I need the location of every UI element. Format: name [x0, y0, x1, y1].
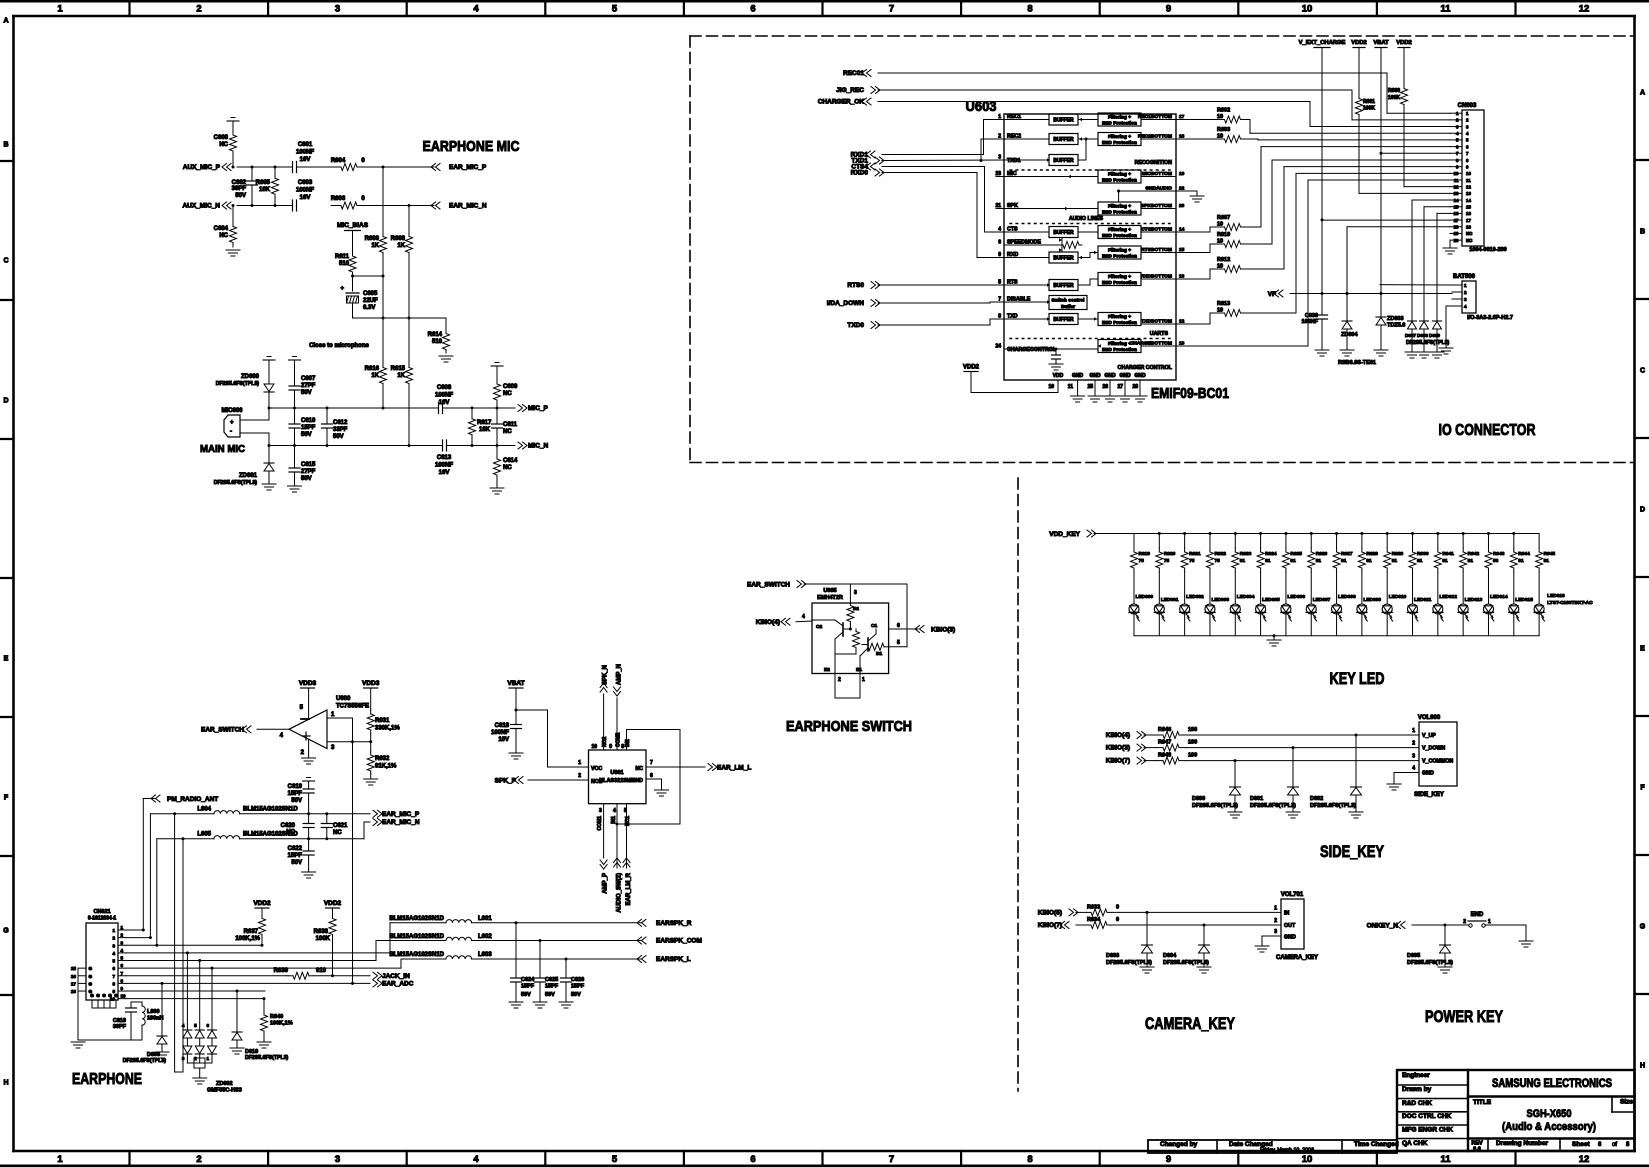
svg-text:9: 9 — [1166, 1154, 1171, 1165]
svg-text:LTST-C193TBKT-AC: LTST-C193TBKT-AC — [1547, 600, 1593, 606]
svg-text:of: of — [1612, 1142, 1617, 1148]
svg-text:20: 20 — [1179, 203, 1185, 209]
svg-text:MFG ENGR CHK: MFG ENGR CHK — [1402, 1127, 1453, 1134]
svg-text:V_COMMON: V_COMMON — [1422, 759, 1453, 765]
svg-text:ZD604: ZD604 — [1341, 332, 1358, 338]
svg-text:ESD Protection: ESD Protection — [1102, 233, 1137, 239]
svg-text:BUFFER: BUFFER — [1053, 256, 1074, 262]
svg-text:LED610: LED610 — [1389, 594, 1407, 600]
svg-text:0-1612634-1: 0-1612634-1 — [88, 916, 117, 922]
svg-text:3: 3 — [1464, 297, 1467, 302]
svg-text:C601: C601 — [298, 142, 313, 148]
svg-text:REC01: REC01 — [843, 70, 864, 77]
svg-text:100nH: 100nH — [147, 1016, 164, 1022]
svg-text:6: 6 — [206, 1023, 209, 1028]
svg-text:R605: R605 — [256, 180, 271, 186]
svg-text:LED615: LED615 — [1515, 597, 1533, 603]
svg-text:1: 1 — [331, 712, 335, 718]
svg-text:NC: NC — [503, 465, 512, 471]
svg-text:R616: R616 — [365, 366, 380, 372]
svg-text:R621: R621 — [1189, 551, 1201, 557]
svg-text:2: 2 — [1274, 918, 1277, 924]
svg-text:0: 0 — [1116, 904, 1119, 910]
svg-text:6: 6 — [1466, 144, 1469, 149]
svg-text:G: G — [89, 981, 93, 986]
svg-text:12: 12 — [1579, 4, 1590, 15]
svg-text:16V: 16V — [439, 400, 450, 406]
svg-text:EAR_MIC_N: EAR_MIC_N — [449, 203, 487, 210]
svg-text:15: 15 — [1466, 205, 1471, 210]
svg-text:EAR_SWITCH: EAR_SWITCH — [747, 582, 790, 589]
svg-text:DF2S5.6FS(TPL3): DF2S5.6FS(TPL3) — [214, 480, 258, 486]
svg-text:NO2: NO2 — [602, 737, 608, 748]
svg-text:4: 4 — [280, 733, 284, 739]
svg-text:C618: C618 — [495, 723, 510, 729]
svg-text:39PF: 39PF — [113, 1024, 127, 1030]
svg-text:U603: U603 — [966, 98, 997, 114]
svg-text:ESD Protection: ESD Protection — [1102, 320, 1137, 326]
svg-text:8: 8 — [1027, 4, 1032, 15]
svg-text:VDD_KEY: VDD_KEY — [1049, 531, 1080, 538]
svg-text:10: 10 — [1302, 1154, 1313, 1165]
svg-text:R608: R608 — [391, 236, 406, 242]
svg-text:5: 5 — [612, 4, 618, 15]
svg-text:A: A — [3, 18, 8, 25]
svg-text:1: 1 — [1488, 919, 1491, 925]
svg-text:KEY LED: KEY LED — [1330, 670, 1385, 688]
svg-text:12: 12 — [1579, 1154, 1590, 1165]
svg-text:E: E — [1640, 646, 1645, 653]
svg-text:4: 4 — [473, 1154, 479, 1165]
svg-text:TDZ5.6: TDZ5.6 — [1387, 323, 1405, 329]
svg-text:Drawing Number: Drawing Number — [1496, 1140, 1548, 1147]
svg-text:R625: R625 — [1290, 551, 1302, 557]
svg-text:GND: GND — [1104, 373, 1116, 379]
svg-text:VBAT: VBAT — [1373, 40, 1389, 46]
svg-text:ZD603: ZD603 — [1387, 316, 1404, 322]
svg-text:U601: U601 — [610, 770, 623, 776]
svg-text:1: 1 — [1274, 905, 1277, 911]
svg-text:A: A — [1640, 90, 1645, 97]
svg-text:KBIO(3): KBIO(3) — [1106, 745, 1130, 752]
svg-text:G: G — [114, 993, 118, 998]
svg-text:4: 4 — [1412, 766, 1415, 772]
svg-text:POWER KEY: POWER KEY — [1425, 1008, 1503, 1026]
svg-text:100K: 100K — [1388, 95, 1400, 101]
svg-text:5: 5 — [1466, 138, 1469, 143]
svg-text:10K: 10K — [479, 427, 491, 433]
svg-text:17: 17 — [71, 981, 77, 986]
svg-text:D609: D609 — [1429, 333, 1440, 338]
svg-text:100K: 100K — [1363, 106, 1375, 112]
svg-text:Changed by: Changed by — [1160, 1141, 1198, 1148]
svg-text:100NF: 100NF — [296, 188, 314, 194]
svg-text:7: 7 — [112, 974, 115, 979]
svg-text:33PF: 33PF — [333, 427, 348, 433]
svg-text:50V: 50V — [291, 798, 302, 804]
svg-text:R642: R642 — [1468, 551, 1480, 557]
svg-text:C607: C607 — [301, 376, 316, 382]
svg-text:9: 9 — [1166, 4, 1171, 15]
svg-text:AUX_MIC_P: AUX_MIC_P — [183, 164, 221, 171]
svg-text:CN603: CN603 — [1458, 103, 1477, 109]
svg-text:JACK_IN: JACK_IN — [382, 973, 410, 980]
svg-text:910: 910 — [316, 968, 327, 974]
svg-text:50V: 50V — [301, 390, 312, 396]
svg-text:IN: IN — [1284, 910, 1289, 916]
svg-text:1: 1 — [1464, 283, 1467, 288]
svg-text:I/DA_DOWN: I/DA_DOWN — [827, 300, 865, 307]
svg-text:BAT500: BAT500 — [1453, 274, 1476, 280]
svg-text:BLM15AG102SN1D: BLM15AG102SN1D — [389, 952, 444, 958]
svg-text:R631: R631 — [375, 718, 390, 724]
svg-text:R620: R620 — [1164, 551, 1176, 557]
svg-text:10V: 10V — [498, 737, 509, 743]
svg-text:91: 91 — [1544, 558, 1550, 564]
svg-text:Filtering +: Filtering + — [1108, 115, 1131, 121]
svg-text:50V: 50V — [291, 860, 302, 866]
svg-text:27PF: 27PF — [301, 383, 316, 389]
svg-text:G: G — [1640, 924, 1646, 931]
svg-text:50V: 50V — [301, 476, 312, 482]
svg-text:3: 3 — [1412, 754, 1415, 760]
svg-text:LED608: LED608 — [1338, 594, 1356, 600]
svg-text:NC: NC — [333, 830, 342, 836]
svg-text:BUFFER: BUFFER — [1053, 118, 1074, 124]
svg-text:D605: D605 — [1407, 953, 1420, 959]
svg-text:1: 1 — [206, 1056, 209, 1061]
svg-text:V_DOWN: V_DOWN — [1422, 746, 1445, 752]
svg-text:COM1: COM1 — [597, 816, 603, 831]
svg-text:CAMERA_KEY: CAMERA_KEY — [1145, 1015, 1235, 1033]
svg-text:2: 2 — [1463, 919, 1466, 925]
svg-text:R604: R604 — [331, 158, 346, 164]
svg-text:JIG_REC: JIG_REC — [836, 87, 864, 94]
svg-text:8: 8 — [112, 981, 115, 986]
svg-text:6.3V: 6.3V — [363, 305, 375, 311]
svg-text:22UF: 22UF — [363, 298, 378, 304]
svg-text:G: G — [3, 928, 9, 935]
svg-text:3: 3 — [335, 1154, 340, 1165]
svg-text:SGH-X650: SGH-X650 — [1527, 1108, 1572, 1120]
svg-text:MIC_N: MIC_N — [528, 443, 549, 450]
svg-text:15PF: 15PF — [545, 984, 559, 990]
svg-text:10: 10 — [591, 744, 597, 750]
svg-text:GND: GND — [1089, 373, 1101, 379]
svg-text:15: 15 — [1454, 205, 1459, 210]
svg-text:BUFFER: BUFFER — [1053, 283, 1074, 289]
svg-text:C619: C619 — [288, 784, 303, 790]
svg-text:5: 5 — [121, 956, 124, 961]
svg-text:GND: GND — [1284, 935, 1296, 941]
svg-text:50V: 50V — [301, 432, 312, 438]
svg-text:1K: 1K — [397, 373, 405, 379]
svg-text:1: 1 — [112, 928, 115, 933]
svg-text:G: G — [89, 974, 93, 979]
svg-text:2: 2 — [1412, 741, 1415, 747]
svg-text:1: 1 — [1412, 728, 1415, 734]
svg-text:R627: R627 — [1341, 551, 1353, 557]
svg-text:AMP_P: AMP_P — [603, 873, 609, 894]
svg-text:VDD2: VDD2 — [1351, 40, 1366, 46]
svg-text:SPK_N: SPK_N — [603, 665, 609, 685]
svg-text:NC: NC — [219, 233, 228, 239]
svg-text:8: 8 — [1466, 158, 1469, 163]
svg-text:LED614: LED614 — [1490, 594, 1508, 600]
svg-text:Filtering +: Filtering + — [1108, 274, 1131, 280]
svg-text:50V: 50V — [235, 193, 246, 199]
svg-text:11: 11 — [1440, 4, 1451, 15]
svg-text:3: 3 — [1274, 929, 1277, 935]
svg-text:R606: R606 — [331, 196, 346, 202]
svg-text:28: 28 — [1132, 384, 1138, 390]
svg-text:100NF: 100NF — [1301, 319, 1318, 325]
svg-text:LED612: LED612 — [1439, 594, 1457, 600]
svg-text:C2: C2 — [816, 624, 822, 630]
svg-text:1: 1 — [121, 925, 124, 930]
svg-text:VDD2: VDD2 — [253, 900, 271, 907]
svg-text:BLM15AG102SN1D: BLM15AG102SN1D — [243, 807, 298, 813]
svg-text:B: B — [1640, 229, 1645, 236]
svg-text:510: 510 — [339, 261, 350, 267]
svg-text:27PF: 27PF — [301, 469, 316, 475]
svg-text:D601: D601 — [1250, 796, 1263, 802]
svg-text:B: B — [3, 142, 8, 149]
svg-text:DF2S5.6FS(TPL3): DF2S5.6FS(TPL3) — [1163, 960, 1209, 966]
svg-text:GND: GND — [631, 778, 643, 784]
svg-text:EAR_MIC_N: EAR_MIC_N — [382, 819, 420, 826]
svg-text:D600: D600 — [1192, 796, 1205, 802]
svg-text:56: 56 — [1493, 558, 1499, 564]
svg-text:ZD601: ZD601 — [239, 473, 258, 479]
svg-text:91: 91 — [1442, 558, 1448, 564]
svg-text:C600: C600 — [214, 135, 229, 141]
svg-text:20: 20 — [1454, 238, 1459, 243]
svg-text:19: 19 — [1454, 231, 1459, 236]
svg-text:7: 7 — [121, 971, 124, 976]
svg-text:U600: U600 — [336, 696, 351, 702]
svg-text:Switch control: Switch control — [1051, 298, 1084, 304]
svg-text:100K,1%: 100K,1% — [270, 1021, 293, 1027]
svg-text:C: C — [3, 258, 8, 265]
svg-text:18: 18 — [1454, 225, 1459, 230]
svg-text:BUFFER: BUFFER — [1053, 230, 1074, 236]
svg-text:25: 25 — [1087, 384, 1093, 390]
svg-text:NC: NC — [286, 830, 295, 836]
svg-text:DF2S5.6FS(TPL3): DF2S5.6FS(TPL3) — [1406, 340, 1450, 346]
svg-text:1: 1 — [57, 4, 63, 15]
svg-text:Time Changed: Time Changed — [1354, 1141, 1399, 1148]
svg-text:R633: R633 — [1087, 904, 1100, 910]
svg-text:16V: 16V — [300, 195, 311, 201]
svg-text:11: 11 — [1466, 178, 1471, 183]
svg-text:LED603: LED603 — [1211, 597, 1229, 603]
svg-text:GND: GND — [1422, 771, 1434, 777]
svg-text:2: 2 — [196, 4, 201, 15]
svg-text:KBIO(3): KBIO(3) — [931, 627, 955, 634]
svg-text:4: 4 — [473, 4, 479, 15]
svg-text:14: 14 — [1454, 198, 1459, 203]
svg-text:13: 13 — [1454, 191, 1459, 196]
svg-text:100: 100 — [1188, 727, 1197, 733]
svg-text:2: 2 — [112, 936, 115, 941]
svg-text:R614: R614 — [428, 332, 443, 338]
svg-text:9: 9 — [609, 744, 612, 750]
svg-text:C613: C613 — [437, 455, 452, 461]
svg-text:Drawn by: Drawn by — [1402, 1086, 1432, 1093]
svg-text:C624: C624 — [521, 977, 535, 983]
svg-text:MIC_BIAS: MIC_BIAS — [337, 222, 369, 229]
svg-text:100: 100 — [1188, 753, 1197, 759]
svg-text:NC: NC — [503, 429, 512, 435]
svg-text:Friday, March 10, 2006: Friday, March 10, 2006 — [1260, 1148, 1314, 1154]
svg-text:C605: C605 — [363, 291, 378, 297]
svg-text:50V: 50V — [545, 992, 555, 998]
svg-text:3: 3 — [1466, 124, 1469, 129]
svg-text:R619: R619 — [1139, 551, 1151, 557]
svg-text:14: 14 — [1466, 198, 1471, 203]
svg-text:VDD2: VDD2 — [963, 365, 980, 371]
svg-text:KBIO(4): KBIO(4) — [756, 619, 780, 626]
svg-text:END: END — [1471, 912, 1484, 918]
svg-text:12: 12 — [1454, 184, 1459, 189]
svg-text:Filtering +: Filtering + — [1108, 204, 1131, 210]
svg-text:15PF: 15PF — [288, 853, 303, 859]
svg-text:TC7S556FE: TC7S556FE — [336, 704, 369, 710]
svg-text:L601: L601 — [478, 916, 492, 922]
svg-text:B2: B2 — [853, 606, 859, 611]
svg-text:LED601: LED601 — [1161, 597, 1179, 603]
svg-text:Sheet: Sheet — [1572, 1141, 1591, 1148]
svg-text:C609: C609 — [503, 384, 518, 390]
svg-text:DF2S5.6FS(TPL3): DF2S5.6FS(TPL3) — [1310, 803, 1356, 809]
svg-text:D: D — [1640, 507, 1645, 514]
svg-text:NO1: NO1 — [591, 779, 602, 785]
svg-text:ZD602: ZD602 — [216, 1081, 233, 1087]
svg-text:NC: NC — [1466, 231, 1473, 236]
svg-text:R609: R609 — [365, 236, 380, 242]
svg-text:8: 8 — [1626, 1142, 1630, 1148]
svg-text:R634: R634 — [1087, 917, 1101, 923]
svg-text:MIC606: MIC606 — [221, 408, 243, 414]
svg-text:5: 5 — [112, 959, 115, 964]
svg-text:-: - — [230, 429, 232, 435]
svg-text:1004-0019-289: 1004-0019-289 — [1469, 247, 1506, 253]
svg-text:F: F — [1640, 785, 1645, 792]
svg-text:6: 6 — [112, 966, 115, 971]
svg-text:9: 9 — [121, 986, 124, 991]
svg-text:D603: D603 — [1106, 953, 1119, 959]
svg-text:5: 5 — [300, 705, 304, 711]
svg-text:C: C — [1640, 368, 1645, 375]
svg-text:LED607: LED607 — [1313, 597, 1331, 603]
svg-text:RECOGNITION: RECOGNITION — [1135, 160, 1173, 166]
svg-text:R645: R645 — [1544, 551, 1556, 557]
svg-text:Filtering +: Filtering + — [1108, 341, 1131, 347]
svg-text:2: 2 — [578, 773, 581, 779]
svg-text:6: 6 — [650, 773, 653, 779]
svg-text:VBAT: VBAT — [507, 680, 524, 687]
svg-text:18: 18 — [71, 989, 77, 994]
svg-text:G: G — [102, 993, 106, 998]
svg-text:5: 5 — [897, 640, 900, 646]
svg-text:GMF05C-HS3: GMF05C-HS3 — [207, 1088, 242, 1094]
svg-text:R601: R601 — [1363, 99, 1375, 105]
svg-text:C611: C611 — [503, 422, 518, 428]
svg-text:V_UP: V_UP — [1422, 733, 1436, 739]
svg-text:R612: R612 — [1217, 257, 1230, 263]
svg-text:D: D — [3, 398, 8, 405]
svg-text:CHARGER_OK: CHARGER_OK — [818, 99, 865, 106]
svg-text:15PF: 15PF — [301, 425, 316, 431]
svg-text:1K: 1K — [397, 243, 405, 249]
svg-text:DF2S5.6FS(TPL3): DF2S5.6FS(TPL3) — [216, 381, 260, 387]
svg-text:16V: 16V — [300, 157, 311, 163]
svg-text:VCC: VCC — [591, 766, 602, 772]
svg-text:DF2S5.6FS(TPL3): DF2S5.6FS(TPL3) — [245, 1055, 289, 1061]
svg-text:C615: C615 — [301, 462, 316, 468]
svg-text:EARPHONE: EARPHONE — [72, 1071, 142, 1088]
svg-text:R629: R629 — [1392, 551, 1404, 557]
svg-text:GND: GND — [1119, 373, 1131, 379]
svg-text:NC: NC — [503, 391, 512, 397]
svg-text:LED613: LED613 — [1465, 597, 1483, 603]
svg-text:EARPHONE SWITCH: EARPHONE SWITCH — [786, 718, 912, 735]
svg-text:BUFFER: BUFFER — [1053, 317, 1074, 323]
svg-text:4: 4 — [1466, 131, 1469, 136]
svg-text:0: 0 — [361, 158, 365, 164]
svg-text:VOL600: VOL600 — [1418, 715, 1441, 721]
svg-text:GND: GND — [1072, 373, 1084, 379]
svg-text:Filtering +: Filtering + — [1108, 248, 1131, 254]
svg-text:100: 100 — [1188, 740, 1197, 746]
svg-text:91: 91 — [1290, 558, 1296, 564]
svg-text:L605: L605 — [197, 832, 211, 838]
svg-text:6: 6 — [998, 240, 1001, 246]
svg-text:C620: C620 — [281, 823, 296, 829]
svg-text:15: 15 — [71, 966, 77, 971]
svg-text:IN2: IN2 — [625, 739, 631, 747]
svg-text:9: 9 — [1466, 164, 1469, 169]
svg-text:R602: R602 — [1217, 108, 1230, 114]
svg-text:EAR_SWITCH: EAR_SWITCH — [201, 727, 244, 734]
svg-text:G: G — [96, 993, 100, 998]
svg-text:D607: D607 — [1405, 333, 1416, 338]
svg-text:Engineer: Engineer — [1402, 1072, 1430, 1079]
svg-text:4: 4 — [121, 948, 124, 953]
svg-text:R641: R641 — [1442, 551, 1454, 557]
svg-text:16V: 16V — [439, 470, 450, 476]
svg-text:ESD Protection: ESD Protection — [1102, 178, 1137, 184]
svg-text:L603: L603 — [478, 952, 492, 958]
svg-text:0: 0 — [361, 196, 365, 202]
svg-text:13: 13 — [1466, 191, 1471, 196]
svg-text:C610: C610 — [301, 418, 316, 424]
svg-text:CHARGER CONTROL: CHARGER CONTROL — [1118, 365, 1173, 371]
svg-text:3: 3 — [121, 940, 124, 945]
svg-text:(Audio & Accessory): (Audio & Accessory) — [1502, 1121, 1596, 1133]
svg-text:4: 4 — [802, 614, 805, 620]
svg-text:4: 4 — [182, 1023, 185, 1028]
svg-text:NC: NC — [635, 766, 643, 772]
svg-text:91: 91 — [1392, 558, 1398, 564]
svg-text:NC: NC — [219, 142, 228, 148]
svg-text:0: 0 — [1116, 917, 1119, 923]
svg-text:7: 7 — [889, 4, 894, 15]
svg-text:C608: C608 — [437, 385, 452, 391]
svg-text:91: 91 — [1240, 558, 1246, 564]
svg-text:E: E — [4, 656, 9, 663]
